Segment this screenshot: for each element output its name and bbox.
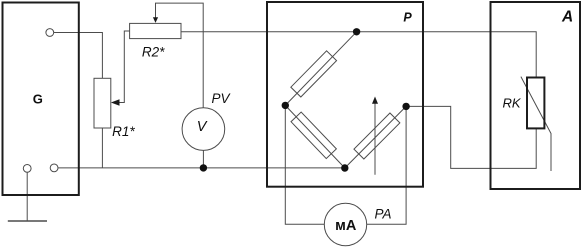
terminal G top xyxy=(46,29,54,37)
wire bridge arm left node to top node xyxy=(285,32,356,106)
label PV xyxy=(211,91,231,106)
ground bar xyxy=(8,220,47,222)
wire bridge arm left node to bottom node xyxy=(285,105,345,168)
svg-text:мА: мА xyxy=(335,218,357,234)
thermistor RK body xyxy=(527,78,544,129)
thermistor RK diagonal stroke xyxy=(521,77,551,171)
wire right node down to PA right xyxy=(367,106,406,224)
svg-text:P: P xyxy=(403,11,412,25)
wire R1 bottom to bottom bus xyxy=(101,128,103,168)
label R2* xyxy=(142,45,165,60)
svg-text:PV: PV xyxy=(211,91,231,106)
label PA xyxy=(374,206,391,221)
label V inside PV xyxy=(197,119,208,135)
wire top bus R2 right to RK top xyxy=(181,32,536,78)
resistor bridge top-left arm body xyxy=(291,51,337,97)
node junction PV tap xyxy=(200,164,207,171)
box P border xyxy=(267,2,423,187)
resistor bridge bottom-right arm body (adjustable) xyxy=(354,113,400,159)
svg-text:R1*: R1* xyxy=(112,124,135,139)
node bridge right xyxy=(402,103,409,110)
wire R2 left end down to R1 wiper xyxy=(119,31,130,103)
voltmeter PV circle xyxy=(182,108,225,151)
wire left node down to PA left xyxy=(285,105,324,224)
adjustable arm arrow shaft xyxy=(374,103,376,175)
wire G top terminal to R1 top xyxy=(54,33,103,79)
wire ground stem xyxy=(26,172,28,221)
svg-text:PA: PA xyxy=(374,206,391,221)
svg-text:V: V xyxy=(197,119,208,135)
resistor R1 body xyxy=(94,78,111,128)
wire right node to RK bottom xyxy=(406,106,536,168)
terminal G bottom left xyxy=(23,165,31,173)
label A xyxy=(561,8,573,25)
svg-text:A: A xyxy=(561,8,573,25)
terminal G bottom right xyxy=(50,164,58,172)
node bridge left xyxy=(282,102,289,109)
wire R2 wiper loop to right end / PV branch xyxy=(156,3,204,108)
label mA inside PA xyxy=(335,218,357,234)
label R1* xyxy=(112,124,135,139)
resistor R2 body xyxy=(130,23,181,38)
node bridge top xyxy=(353,28,360,35)
R2 wiper arrow xyxy=(153,17,158,23)
node bridge bottom xyxy=(341,164,348,171)
milliammeter PA circle xyxy=(324,203,366,245)
wire bridge arm bottom node to right node xyxy=(345,106,406,168)
label RK xyxy=(502,95,521,110)
svg-text:G: G xyxy=(33,92,43,107)
wire bottom bus G to bridge bottom node xyxy=(58,167,345,169)
box G border xyxy=(3,3,79,196)
resistor bridge bottom-left arm body xyxy=(291,112,336,159)
adjustable arm arrow head xyxy=(372,97,378,104)
svg-text:R2*: R2* xyxy=(142,45,165,60)
label G xyxy=(33,92,43,107)
R1 wiper arrow xyxy=(111,99,120,106)
wire PV bottom to bottom bus xyxy=(202,150,204,168)
box A border xyxy=(491,2,581,189)
label P xyxy=(403,11,412,25)
svg-text:RK: RK xyxy=(502,95,521,110)
